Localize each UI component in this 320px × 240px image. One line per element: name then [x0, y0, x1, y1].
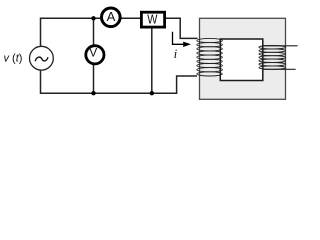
svg-text:A: A	[107, 9, 116, 24]
svg-text:v (t): v (t)	[4, 53, 23, 65]
svg-text:i: i	[174, 46, 178, 61]
svg-text:V: V	[89, 46, 97, 60]
svg-text:W: W	[147, 11, 158, 26]
